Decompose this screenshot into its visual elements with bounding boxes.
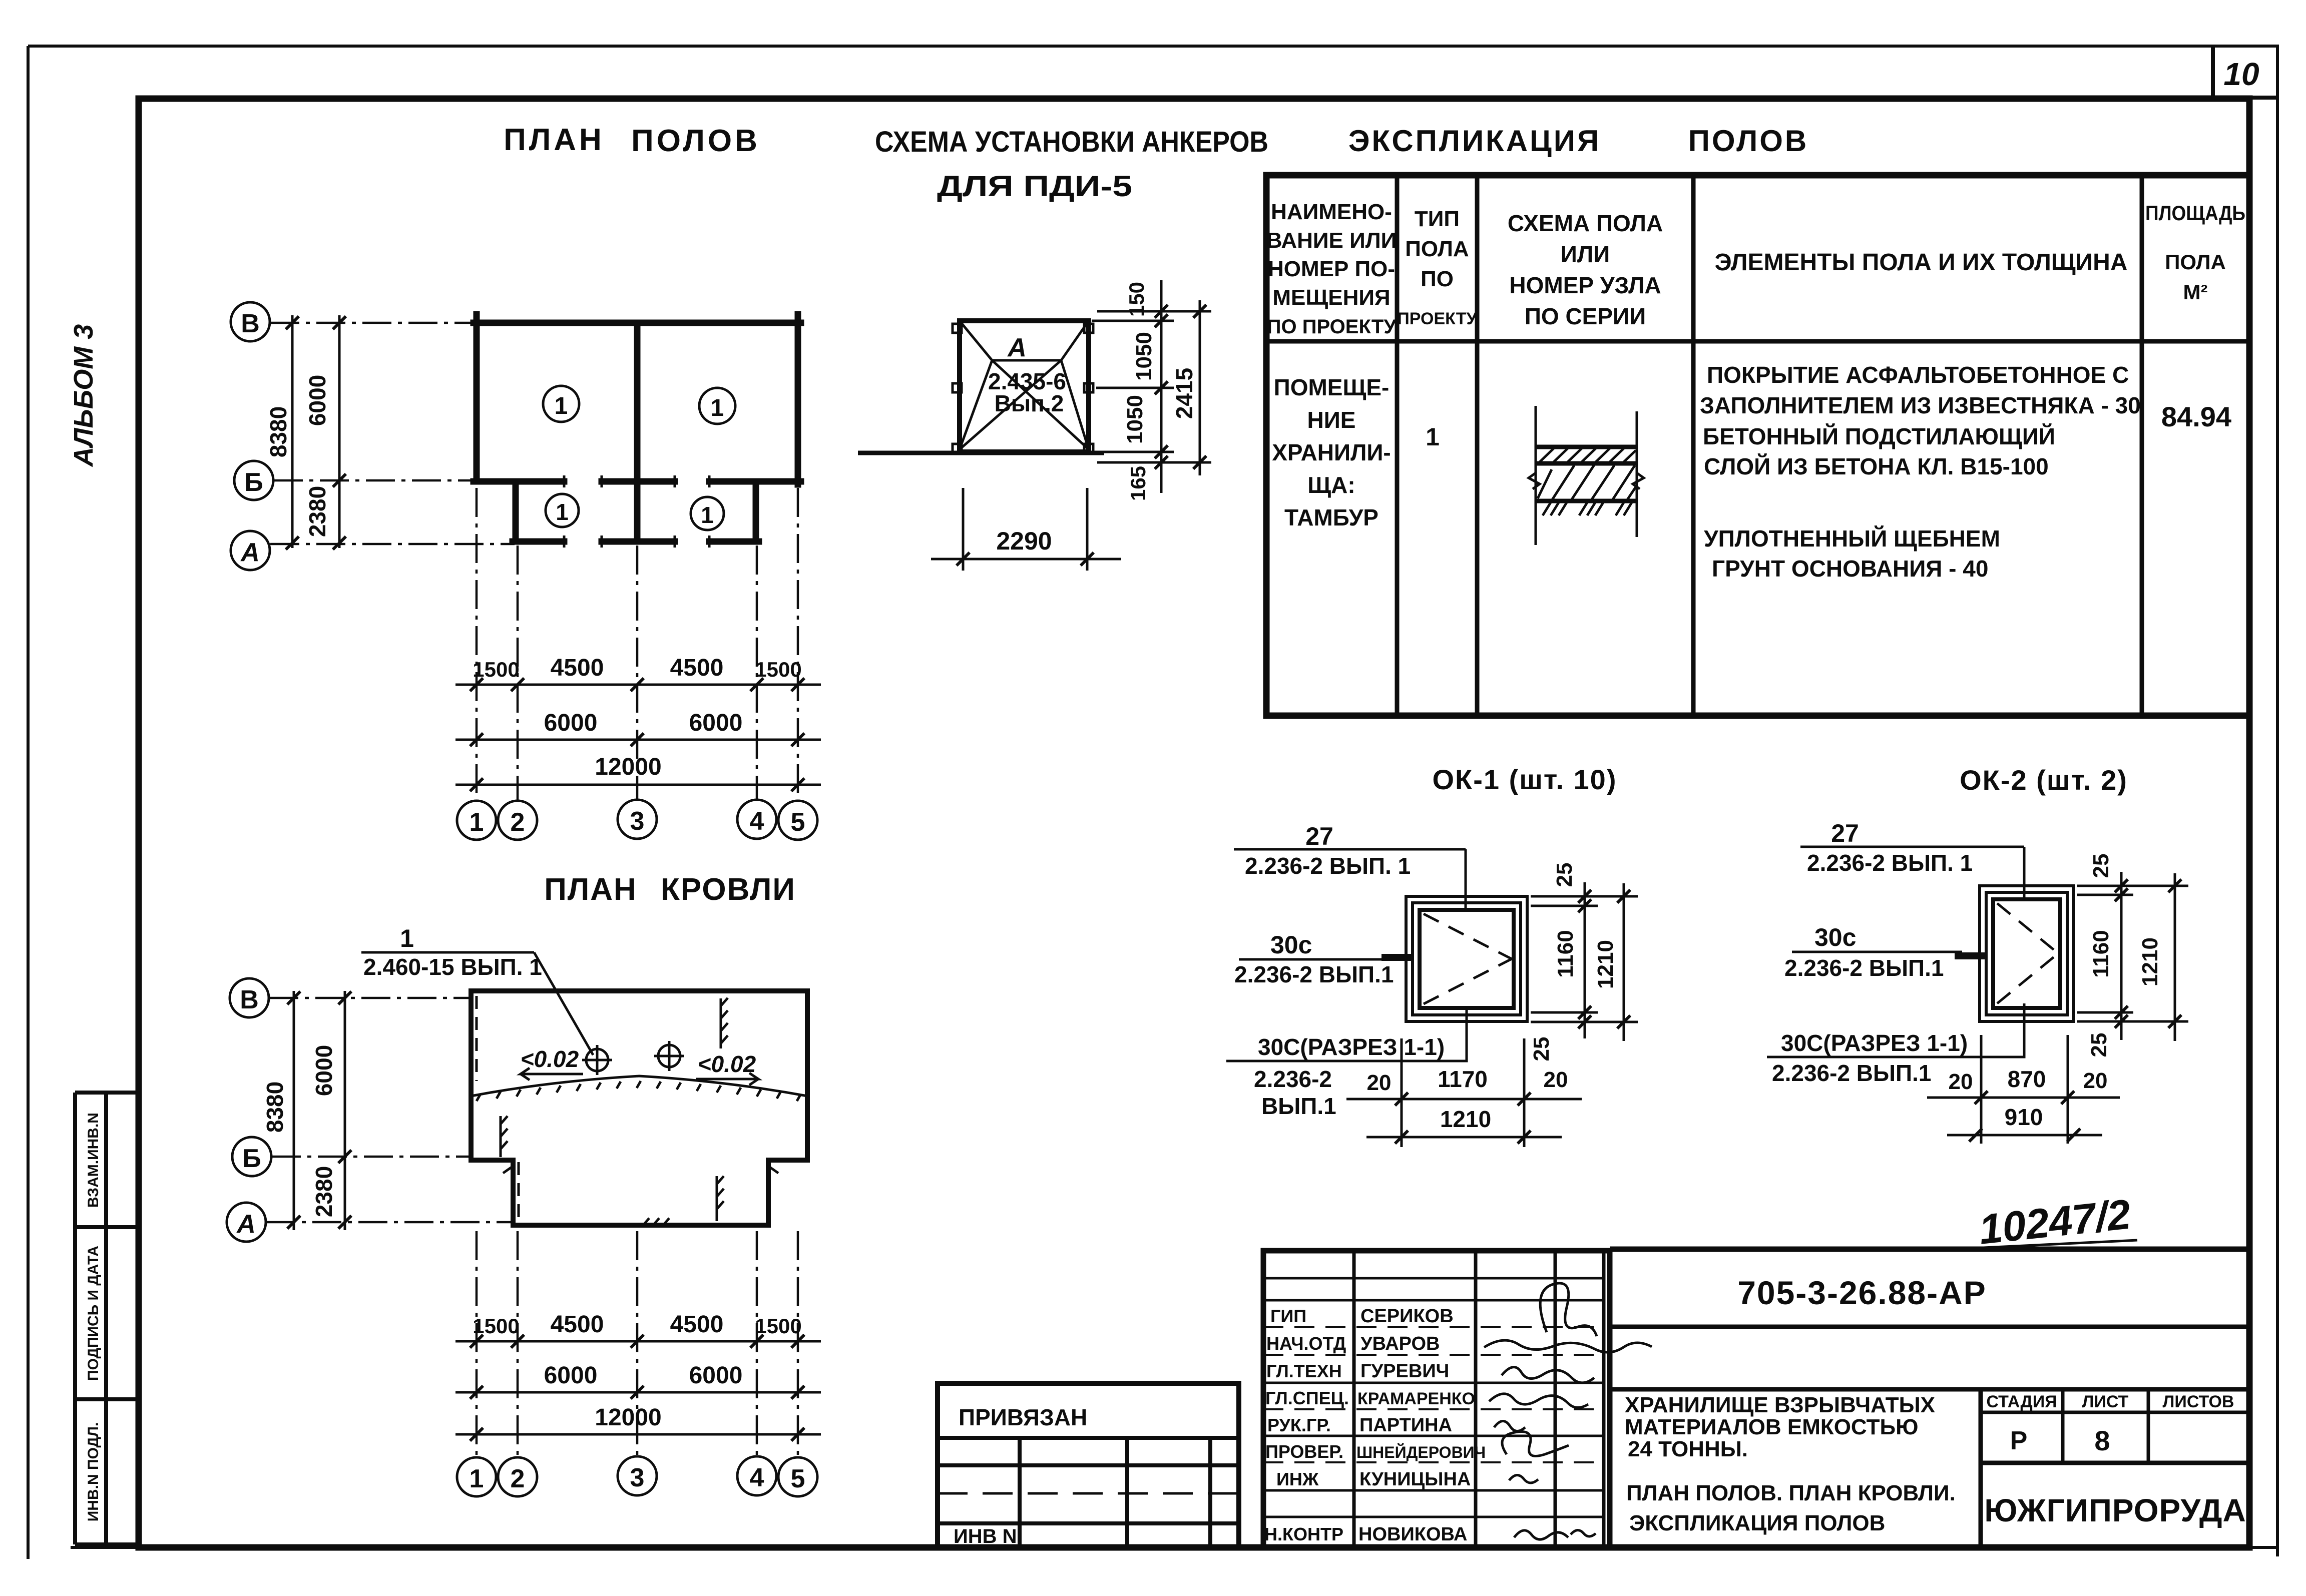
OK-2 dim 25/1160/25 bbox=[2087, 854, 2128, 1057]
axis circle 1 (floor plan) bbox=[457, 801, 496, 840]
svg-text:КРАМАРЕНКО: КРАМАРЕНКО bbox=[1357, 1389, 1475, 1408]
axis extension lines below roof plan bbox=[477, 1231, 798, 1457]
svg-text:1: 1 bbox=[470, 808, 484, 837]
svg-text:4500: 4500 bbox=[551, 1311, 604, 1338]
svg-text:КУНИЦЫНА: КУНИЦЫНА bbox=[1359, 1469, 1471, 1490]
svg-text:1500: 1500 bbox=[473, 1314, 519, 1338]
sheet title text bbox=[1626, 1481, 1956, 1535]
roof dim row 6000/6000 bbox=[455, 1362, 821, 1399]
explication table grid bbox=[1266, 175, 2249, 716]
svg-text:НОМЕР УЗЛА: НОМЕР УЗЛА bbox=[1509, 272, 1661, 298]
svg-text:30С(РАЗРЕЗ 1-1): 30С(РАЗРЕЗ 1-1) bbox=[1258, 1034, 1445, 1060]
svg-text:5: 5 bbox=[791, 1464, 805, 1493]
svg-text:30С(РАЗРЕЗ 1-1): 30С(РАЗРЕЗ 1-1) bbox=[1781, 1030, 1968, 1056]
svg-text:1050: 1050 bbox=[1123, 395, 1147, 444]
svg-text:УВАРОВ: УВАРОВ bbox=[1360, 1333, 1440, 1354]
svg-text:2.236-2 ВЫП. 1: 2.236-2 ВЫП. 1 bbox=[1807, 850, 1973, 876]
tambour wall right (axis 4) bbox=[753, 481, 759, 542]
svg-text:Б: Б bbox=[244, 468, 263, 497]
signature rows names bbox=[1356, 1306, 1486, 1545]
svg-text:2.236-2 ВЫП. 1: 2.236-2 ВЫП. 1 bbox=[1245, 853, 1411, 879]
svg-text:1: 1 bbox=[556, 499, 569, 525]
anchor dim line 150/1050/1050/165 bbox=[1123, 280, 1168, 501]
title block top line and doc number bbox=[1610, 1249, 2249, 1389]
svg-text:ПОЛА: ПОЛА bbox=[2165, 250, 2226, 274]
svg-text:165: 165 bbox=[1126, 466, 1150, 501]
svg-text:ВЗАМ.ИНВ.N: ВЗАМ.ИНВ.N bbox=[85, 1113, 102, 1208]
roof hatch group top right bbox=[721, 998, 728, 1048]
svg-text:АЛЬБОМ 3: АЛЬБОМ 3 bbox=[69, 324, 99, 468]
svg-text:8380: 8380 bbox=[262, 1082, 288, 1133]
svg-text:1210: 1210 bbox=[1440, 1106, 1491, 1132]
room label 1 (right hall) bbox=[699, 388, 735, 424]
svg-text:2.460-15 ВЫП. 1: 2.460-15 ВЫП. 1 bbox=[363, 954, 542, 980]
label 30s / 2.236-2 vyp.1 (OK-2) bbox=[1784, 923, 1986, 981]
floor plan dim row 6000/6000 bbox=[455, 710, 821, 746]
svg-text:ДЛЯ ПДИ-5: ДЛЯ ПДИ-5 bbox=[937, 170, 1132, 203]
svg-text:ШНЕЙДЕРОВИЧ: ШНЕЙДЕРОВИЧ bbox=[1356, 1443, 1486, 1461]
svg-text:6000: 6000 bbox=[689, 1362, 743, 1389]
svg-text:2.236-2: 2.236-2 bbox=[1254, 1066, 1332, 1092]
svg-text:30с: 30с bbox=[1814, 923, 1856, 951]
page number box 10 bbox=[2213, 46, 2277, 98]
svg-text:НАЧ.ОТД: НАЧ.ОТД bbox=[1266, 1333, 1346, 1354]
OK-2 dim 1210 right bbox=[2138, 873, 2181, 1041]
svg-text:20: 20 bbox=[1367, 1071, 1392, 1095]
floor section ground hatch bbox=[1543, 502, 1632, 515]
header col2 tip pola bbox=[1397, 207, 1477, 328]
OK-1 dim 25/1160/25 bbox=[1529, 863, 1591, 1061]
svg-text:РУК.ГР.: РУК.ГР. bbox=[1267, 1415, 1331, 1435]
room label 1 (left hall) bbox=[543, 386, 579, 422]
signature scribbles bbox=[1484, 1283, 1652, 1539]
axis extension lines below floor plan bbox=[477, 488, 798, 801]
axis circle V (roof plan) bbox=[230, 978, 269, 1017]
OK-1 right extension lines bbox=[1531, 896, 1638, 1022]
label 30s razrez 1-1 (OK-2) bbox=[1767, 1025, 2024, 1086]
svg-text:20: 20 bbox=[1949, 1070, 1973, 1094]
roof dashed membrane line left bbox=[476, 996, 478, 1081]
roof dim line 6000 / 2380 bbox=[311, 991, 351, 1230]
roof node label 1 / 2.460-15 vyp.1 bbox=[361, 924, 593, 1055]
axis circle 5 (roof plan) bbox=[778, 1457, 817, 1496]
axis circle 4 (roof plan) bbox=[737, 1456, 776, 1495]
svg-text:ГИП: ГИП bbox=[1270, 1306, 1306, 1326]
svg-text:705-3-26.88-АР: 705-3-26.88-АР bbox=[1737, 1274, 1987, 1311]
svg-text:ЛИСТ: ЛИСТ bbox=[2082, 1392, 2129, 1411]
svg-text:1170: 1170 bbox=[1438, 1066, 1488, 1092]
axis circle 5 (floor plan) bbox=[778, 801, 817, 840]
axis line A horizontal (roof) bbox=[266, 1221, 512, 1224]
svg-text:10: 10 bbox=[2223, 56, 2259, 92]
svg-text:4500: 4500 bbox=[551, 655, 604, 681]
axis circle 2 (roof plan) bbox=[498, 1457, 537, 1496]
svg-text:ЮЖГИПРОРУДА: ЮЖГИПРОРУДА bbox=[1984, 1492, 2246, 1528]
svg-text:8380: 8380 bbox=[265, 406, 291, 457]
svg-text:В: В bbox=[241, 309, 260, 338]
OK-1 bottom extension lines bbox=[1402, 1038, 1524, 1147]
svg-text:МЕЩЕНИЯ: МЕЩЕНИЯ bbox=[1272, 285, 1390, 310]
svg-text:ПО СЕРИИ: ПО СЕРИИ bbox=[1525, 303, 1646, 329]
axis circle A (floor plan) bbox=[231, 531, 270, 570]
title Plan polov bbox=[504, 123, 760, 158]
wall on axis A with door openings bbox=[513, 539, 759, 545]
svg-text:<0.02: <0.02 bbox=[698, 1051, 756, 1077]
axis line V horizontal bbox=[270, 322, 476, 324]
axis circle 4 (floor plan) bbox=[737, 800, 776, 839]
svg-text:ПОМЕЩЕ-: ПОМЕЩЕ- bbox=[1274, 374, 1390, 400]
handwritten archive number 10247/2 bbox=[1952, 1191, 2137, 1253]
anchor dim extension lines right bbox=[1092, 311, 1211, 462]
object name text bbox=[1625, 1393, 1935, 1461]
label 27 / 2.236-2 vyp.1 (OK-1) bbox=[1234, 822, 1466, 901]
svg-text:25: 25 bbox=[2087, 1033, 2111, 1057]
svg-text:1210: 1210 bbox=[1593, 940, 1618, 989]
room label 1 (left tambour) bbox=[546, 494, 579, 527]
anchor symbols left bbox=[953, 324, 962, 453]
svg-text:ИЛИ: ИЛИ bbox=[1561, 241, 1610, 267]
ground line bbox=[858, 451, 1104, 455]
svg-text:2: 2 bbox=[511, 1464, 525, 1493]
svg-text:1210: 1210 bbox=[2138, 937, 2162, 986]
header col5 ploshchad bbox=[2145, 201, 2245, 304]
svg-text:30с: 30с bbox=[1270, 931, 1312, 959]
roof dim row 12000 bbox=[455, 1404, 821, 1441]
svg-text:2.236-2 ВЫП.1: 2.236-2 ВЫП.1 bbox=[1784, 955, 1944, 981]
svg-text:27: 27 bbox=[1305, 822, 1333, 850]
svg-text:25: 25 bbox=[1529, 1037, 1554, 1061]
axis circle 3 (roof plan) bbox=[618, 1456, 657, 1495]
svg-text:НАИМЕНО-: НАИМЕНО- bbox=[1271, 200, 1392, 224]
axis circle 3 (floor plan) bbox=[618, 800, 657, 839]
svg-text:1500: 1500 bbox=[473, 658, 519, 681]
anchor dim line 2415 bbox=[1171, 300, 1206, 475]
svg-text:27: 27 bbox=[1831, 819, 1859, 847]
floor section break marks bbox=[1529, 473, 1644, 489]
window OK-2 opening symbol bbox=[1997, 903, 2058, 1003]
door jamb ticks axis B bbox=[564, 475, 709, 487]
row col4 floor layers text bbox=[1700, 362, 2141, 582]
svg-text:УПЛОТНЕННЫЙ ЩЕБНЕМ: УПЛОТНЕННЫЙ ЩЕБНЕМ bbox=[1704, 525, 2000, 552]
svg-text:4: 4 bbox=[750, 1463, 764, 1492]
svg-text:84.94: 84.94 bbox=[2161, 401, 2231, 432]
svg-text:3: 3 bbox=[630, 1463, 645, 1492]
svg-text:ХРАНИЛИЩЕ ВЗРЫВЧАТЫХ: ХРАНИЛИЩЕ ВЗРЫВЧАТЫХ bbox=[1625, 1393, 1935, 1417]
OK-2 bottom tie tick bbox=[2023, 1003, 2026, 1025]
OK-2 dim 910 bottom bbox=[1947, 1104, 2102, 1142]
row col5 area 84.94 bbox=[2161, 401, 2231, 432]
OK-1 top tie tick bbox=[1465, 886, 1467, 908]
roof ridge curve bbox=[471, 1076, 807, 1096]
axis circle B (floor plan) bbox=[234, 461, 273, 500]
svg-text:2415: 2415 bbox=[1171, 368, 1197, 419]
svg-text:ОК-1 (шт. 10): ОК-1 (шт. 10) bbox=[1433, 764, 1617, 795]
OK-2 right extension lines bbox=[2077, 886, 2188, 1021]
door jamb ticks axis A bbox=[564, 536, 709, 548]
svg-text:4500: 4500 bbox=[670, 1311, 724, 1338]
axis line A horizontal bbox=[270, 543, 515, 546]
floor section concrete layer hatch bbox=[1538, 465, 1637, 500]
svg-text:ПОЛОВ: ПОЛОВ bbox=[631, 124, 760, 158]
svg-text:ПОДПИСЬ И ДАТА: ПОДПИСЬ И ДАТА bbox=[85, 1246, 102, 1381]
OK-1 dim 1210 bottom bbox=[1366, 1106, 1562, 1144]
svg-text:БЕТОННЫЙ ПОДСТИЛАЮЩИЙ: БЕТОННЫЙ ПОДСТИЛАЮЩИЙ bbox=[1703, 423, 2055, 449]
svg-text:ИНВ N: ИНВ N bbox=[954, 1525, 1017, 1547]
svg-text:1: 1 bbox=[711, 395, 724, 421]
svg-text:4500: 4500 bbox=[670, 655, 724, 681]
svg-text:1050: 1050 bbox=[1132, 332, 1156, 381]
privyazan block bbox=[938, 1383, 1239, 1547]
svg-text:ЭЛЕМЕНТЫ ПОЛА И ИХ ТОЛЩИНА: ЭЛЕМЕНТЫ ПОЛА И ИХ ТОЛЩИНА bbox=[1714, 249, 2127, 276]
stadiya list listov mini table bbox=[1981, 1389, 2249, 1547]
axis circle 2 (floor plan) bbox=[498, 801, 537, 840]
svg-text:А: А bbox=[240, 538, 260, 567]
svg-text:Б: Б bbox=[242, 1144, 261, 1173]
OK-1 dim 1210 right bbox=[1593, 883, 1630, 1041]
svg-text:М²: М² bbox=[2183, 280, 2208, 304]
svg-text:20: 20 bbox=[2083, 1069, 2108, 1093]
svg-text:А: А bbox=[1007, 333, 1027, 362]
svg-text:ПРИВЯЗАН: ПРИВЯЗАН bbox=[959, 1404, 1087, 1430]
svg-text:НОВИКОВА: НОВИКОВА bbox=[1358, 1524, 1468, 1545]
svg-text:ИНЖ: ИНЖ bbox=[1276, 1469, 1319, 1489]
OK-2 dim 20/870/20 bbox=[1927, 1066, 2120, 1104]
svg-text:Н.КОНТР: Н.КОНТР bbox=[1264, 1524, 1343, 1544]
anchor sling lines bbox=[960, 321, 1089, 449]
svg-text:6000: 6000 bbox=[544, 710, 598, 736]
row col1 pomeshchenie bbox=[1272, 374, 1391, 530]
svg-text:ЭКСПЛИКАЦИЯ: ЭКСПЛИКАЦИЯ bbox=[1348, 124, 1601, 158]
svg-text:25: 25 bbox=[2089, 854, 2113, 878]
label 27 / 2.236-2 vyp.1 (OK-2) bbox=[1800, 819, 2024, 891]
title OK-2 bbox=[1960, 764, 2128, 796]
svg-text:ПОЛОВ: ПОЛОВ bbox=[1688, 124, 1808, 158]
roof dashed membrane line tambour left bbox=[518, 1162, 520, 1221]
svg-text:20: 20 bbox=[1544, 1068, 1568, 1092]
svg-text:1160: 1160 bbox=[2089, 930, 2113, 977]
svg-text:НОМЕР ПО-: НОМЕР ПО- bbox=[1268, 257, 1395, 281]
svg-text:1160: 1160 bbox=[1553, 930, 1578, 977]
title Explikaciya polov bbox=[1348, 124, 1808, 158]
row col2 type 1 bbox=[1426, 423, 1440, 451]
anchor bottom dim 2290 bbox=[931, 488, 1121, 571]
svg-text:ПЛОЩАДЬ: ПЛОЩАДЬ bbox=[2145, 201, 2245, 225]
svg-text:1: 1 bbox=[400, 924, 414, 952]
svg-text:ПЛАН ПОЛОВ. ПЛАН КРОВЛИ.: ПЛАН ПОЛОВ. ПЛАН КРОВЛИ. bbox=[1626, 1481, 1956, 1505]
svg-text:МАТЕРИАЛОВ ЕМКОСТЬЮ: МАТЕРИАЛОВ ЕМКОСТЬЮ bbox=[1625, 1415, 1918, 1439]
left margin stamp boxes bbox=[75, 1093, 139, 1544]
svg-text:ПО: ПО bbox=[1421, 267, 1454, 291]
svg-text:ИНВ.N ПОДЛ.: ИНВ.N ПОДЛ. bbox=[85, 1422, 102, 1522]
roof dim line 8380 bbox=[262, 991, 300, 1230]
svg-text:ЭКСПЛИКАЦИЯ ПОЛОВ: ЭКСПЛИКАЦИЯ ПОЛОВ bbox=[1629, 1511, 1885, 1535]
floor plan dim row 12000 bbox=[455, 754, 821, 791]
dim line 8380 vertical bbox=[265, 315, 299, 550]
floor section asphalt layer hatch bbox=[1539, 448, 1636, 462]
svg-text:ПРОЕКТУ: ПРОЕКТУ bbox=[1397, 309, 1477, 328]
floor plan dim row 1500/4500/4500/1500 bbox=[455, 655, 821, 691]
roof slope label right bbox=[696, 1051, 758, 1085]
svg-text:ЩА:: ЩА: bbox=[1307, 472, 1355, 498]
OK-2 bottom extension lines bbox=[1981, 1035, 2068, 1144]
svg-text:А: А bbox=[236, 1210, 256, 1239]
axis line V horizontal (roof) bbox=[269, 997, 471, 999]
anchor plate outline bbox=[960, 321, 1089, 452]
axis circle V (floor plan) bbox=[231, 302, 270, 341]
dim line 6000 / 2380 vertical bbox=[304, 315, 346, 550]
svg-text:ГРУНТ ОСНОВАНИЯ - 40: ГРУНТ ОСНОВАНИЯ - 40 bbox=[1712, 556, 1988, 582]
svg-text:СХЕМА УСТАНОВКИ АНКЕРОВ: СХЕМА УСТАНОВКИ АНКЕРОВ bbox=[875, 126, 1268, 158]
svg-text:СХЕМА ПОЛА: СХЕМА ПОЛА bbox=[1508, 210, 1663, 236]
roof outline bbox=[471, 991, 807, 1225]
svg-text:25: 25 bbox=[1552, 863, 1577, 887]
axis circle B (roof plan) bbox=[232, 1137, 271, 1176]
header col3 shema pola bbox=[1508, 210, 1663, 329]
OK-1 bottom tie tick bbox=[1466, 1010, 1468, 1032]
svg-text:СЛОЙ ИЗ БЕТОНА КЛ. В15-100: СЛОЙ ИЗ БЕТОНА КЛ. В15-100 bbox=[1704, 453, 2049, 479]
svg-text:1500: 1500 bbox=[755, 1314, 801, 1338]
tambour wall left (axis 2) bbox=[513, 481, 519, 542]
window OK-1 opening symbol bbox=[1424, 914, 1512, 1004]
title Shema ustanovki ankerov bbox=[875, 126, 1268, 203]
svg-text:ЛИСТОВ: ЛИСТОВ bbox=[2163, 1392, 2234, 1411]
svg-text:СТАДИЯ: СТАДИЯ bbox=[1986, 1392, 2057, 1411]
anchor symbols right bbox=[1084, 324, 1093, 453]
svg-text:8: 8 bbox=[2094, 1425, 2110, 1456]
svg-text:6000: 6000 bbox=[311, 1045, 337, 1096]
window OK-1 frame bbox=[1406, 896, 1527, 1021]
svg-text:Р: Р bbox=[2010, 1426, 2028, 1455]
svg-text:НИЕ: НИЕ bbox=[1307, 407, 1356, 433]
svg-text:ПАРТИНА: ПАРТИНА bbox=[1359, 1415, 1452, 1436]
label 30s razrez 1-1 (OK-1) bbox=[1226, 1022, 1467, 1119]
header col1 naimenovanie bbox=[1266, 200, 1397, 338]
axis circle 1 (roof plan) bbox=[457, 1457, 496, 1496]
svg-text:870: 870 bbox=[2008, 1066, 2046, 1092]
svg-text:ОК-2 (шт. 2): ОК-2 (шт. 2) bbox=[1960, 764, 2128, 796]
roof slope label left bbox=[521, 1046, 583, 1080]
svg-text:12000: 12000 bbox=[595, 1404, 661, 1431]
roof hatch group right lower bbox=[717, 1176, 724, 1221]
roof drain funnel right bbox=[654, 1041, 684, 1071]
svg-text:ПО ПРОЕКТУ: ПО ПРОЕКТУ bbox=[1267, 316, 1397, 338]
axis line B horizontal (roof) bbox=[272, 1156, 471, 1158]
floor section sketch layer lines bbox=[1536, 447, 1637, 501]
room label 1 (right tambour) bbox=[691, 497, 724, 530]
svg-text:2290: 2290 bbox=[996, 527, 1052, 555]
svg-text:ПОКРЫТИЕ АСФАЛЬТОБЕТОННОЕ С: ПОКРЫТИЕ АСФАЛЬТОБЕТОННОЕ С bbox=[1707, 362, 2129, 388]
svg-text:1: 1 bbox=[470, 1464, 484, 1493]
svg-text:ПЛАН: ПЛАН bbox=[544, 872, 637, 907]
axis line B horizontal bbox=[274, 479, 476, 482]
roof corner tick left step bbox=[503, 1166, 778, 1173]
svg-text:ВАНИЕ ИЛИ: ВАНИЕ ИЛИ bbox=[1266, 228, 1397, 253]
wall top (axis V) bbox=[474, 320, 801, 326]
svg-text:2: 2 bbox=[511, 808, 525, 837]
svg-text:ПЛАН: ПЛАН bbox=[504, 123, 605, 157]
floor section sketch walls bbox=[1536, 406, 1637, 545]
svg-text:ВЫП.1: ВЫП.1 bbox=[1261, 1093, 1336, 1119]
wall right (axis 5) bbox=[795, 314, 801, 484]
svg-text:В: В bbox=[240, 985, 259, 1014]
svg-text:5: 5 bbox=[791, 808, 805, 837]
svg-text:ХРАНИЛИ-: ХРАНИЛИ- bbox=[1272, 439, 1391, 465]
signature rows labels bbox=[1264, 1306, 1349, 1544]
organization name bbox=[1984, 1492, 2246, 1528]
wall center (axis 3) bbox=[634, 323, 641, 542]
signature table grid bbox=[1263, 1251, 1610, 1547]
svg-text:2380: 2380 bbox=[304, 486, 330, 537]
album label bbox=[69, 324, 99, 468]
svg-text:910: 910 bbox=[2005, 1104, 2043, 1130]
svg-text:1: 1 bbox=[1426, 423, 1440, 451]
svg-text:6000: 6000 bbox=[544, 1362, 598, 1389]
label 30s / 2.236-2 vyp.1 (OK-1) bbox=[1234, 931, 1413, 987]
svg-text:150: 150 bbox=[1125, 282, 1148, 317]
svg-text:ТАМБУР: ТАМБУР bbox=[1284, 504, 1378, 530]
wall on axis B with door openings bbox=[474, 478, 801, 485]
title OK-1 bbox=[1433, 764, 1617, 795]
roof ridge serration hatch bbox=[477, 1081, 801, 1101]
roof hatch group left middle bbox=[501, 1116, 508, 1157]
svg-text:Вып.2: Вып.2 bbox=[995, 390, 1064, 416]
header col4 elementy pola bbox=[1714, 249, 2127, 276]
svg-text:6000: 6000 bbox=[689, 710, 743, 736]
svg-text:ПОЛА: ПОЛА bbox=[1405, 237, 1469, 261]
svg-text:СЕРИКОВ: СЕРИКОВ bbox=[1360, 1306, 1454, 1327]
axis circle A (roof plan) bbox=[227, 1203, 266, 1242]
OK-2 top tie tick bbox=[2023, 876, 2026, 898]
svg-text:24 ТОННЫ.: 24 ТОННЫ. bbox=[1628, 1437, 1748, 1461]
svg-text:КРОВЛИ: КРОВЛИ bbox=[661, 872, 796, 907]
svg-text:2380: 2380 bbox=[311, 1166, 337, 1217]
svg-text:12000: 12000 bbox=[595, 754, 661, 780]
svg-text:2.236-2 ВЫП.1: 2.236-2 ВЫП.1 bbox=[1234, 961, 1394, 987]
OK-1 dim 20/1170/20 bbox=[1346, 1066, 1582, 1106]
anchor node label A 2.435-6 vyp.2 bbox=[988, 333, 1066, 416]
window OK-2 frame bbox=[1980, 886, 2074, 1021]
svg-text:1500: 1500 bbox=[755, 658, 801, 681]
svg-text:ГЛ.СПЕЦ.: ГЛ.СПЕЦ. bbox=[1265, 1388, 1349, 1408]
svg-text:2.236-2 ВЫП.1: 2.236-2 ВЫП.1 bbox=[1772, 1060, 1931, 1086]
roof hatch group bottom center bbox=[636, 1218, 669, 1225]
svg-text:4: 4 bbox=[750, 807, 764, 836]
svg-text:6000: 6000 bbox=[304, 375, 330, 426]
wall left (axis 1) bbox=[474, 314, 480, 481]
svg-text:ГЛ.ТЕХН: ГЛ.ТЕХН bbox=[1266, 1361, 1342, 1381]
svg-text:1: 1 bbox=[701, 502, 714, 528]
roof dim row 1500/4500/4500/1500 bbox=[455, 1311, 821, 1348]
svg-text:3: 3 bbox=[630, 807, 645, 836]
roof drain funnel left bbox=[582, 1045, 612, 1075]
svg-text:1: 1 bbox=[555, 393, 568, 419]
svg-text:ПРОВЕР.: ПРОВЕР. bbox=[1265, 1441, 1343, 1462]
svg-text:ТИП: ТИП bbox=[1415, 207, 1460, 231]
title Plan krovli bbox=[544, 872, 796, 907]
svg-text:ГУРЕВИЧ: ГУРЕВИЧ bbox=[1360, 1361, 1449, 1382]
svg-text:ЗАПОЛНИТЕЛЕМ ИЗ ИЗВЕСТНЯКА - 3: ЗАПОЛНИТЕЛЕМ ИЗ ИЗВЕСТНЯКА - 30 bbox=[1700, 392, 2141, 418]
